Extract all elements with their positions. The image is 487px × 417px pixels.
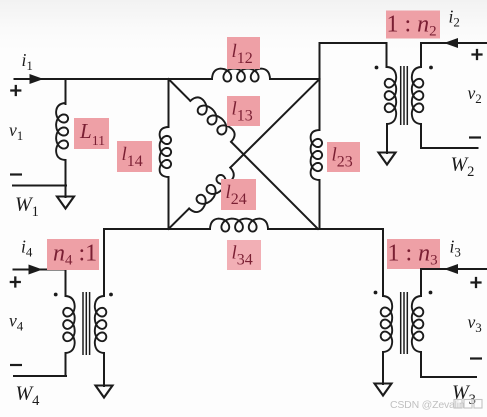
ground below U3 primary: [375, 384, 392, 396]
ground below U2 primary: [379, 153, 396, 165]
label L11: [74, 118, 109, 149]
svg-text:1 : n2: 1 : n2: [387, 12, 437, 40]
wire: diagonal from top-left corner (l13 branch start): [169, 79, 191, 101]
wire: U4 secondary top to square: [103, 229, 105, 296]
dot U2 secondary: [429, 66, 433, 70]
wire: square BR to transformer U3 primary: [382, 229, 384, 296]
wire: square right side bottom: [319, 180, 321, 229]
ground below L11: [57, 197, 74, 209]
transformer U2 secondary winding: [412, 67, 424, 124]
wire: port-1 bottom terminal line: [13, 185, 66, 187]
label l12: [227, 37, 260, 69]
ground below U4 secondary: [96, 386, 113, 398]
plus terminal port 2: [471, 49, 482, 60]
wire: U2 secondary bottom terminal: [421, 124, 478, 148]
inductor l24: [189, 168, 234, 212]
svg-text:n4 :1: n4 :1: [53, 240, 97, 268]
wire: U2 primary bottom to ground: [386, 124, 388, 153]
minus terminal port 3: [470, 357, 482, 359]
wire: square TR corner up: [319, 43, 321, 79]
dot U3 primary: [374, 291, 378, 295]
transformer U2 core: [400, 66, 402, 125]
label l34: [227, 240, 261, 270]
wire: port-1 input bus to square top-left: [15, 78, 169, 80]
minus terminal port 4: [10, 364, 22, 366]
dot U4 secondary: [109, 293, 113, 297]
inductor L11: [56, 103, 68, 160]
plus terminal port 4: [10, 276, 21, 287]
transformer U4 core: [82, 292, 84, 355]
wire: square bottom right segment: [268, 228, 383, 230]
wire: square top-left segment: [169, 78, 213, 80]
transformer U3 secondary winding: [412, 296, 424, 352]
wire: L11 branch top: [65, 79, 67, 104]
wire: square top-right segment: [270, 78, 320, 80]
wire: to transformer U2 primary: [320, 43, 387, 67]
dot U2 primary: [375, 66, 379, 70]
wire: port-4 bottom terminal line: [14, 375, 66, 377]
label 1:n3: [387, 239, 440, 269]
inductor l14: [160, 127, 172, 177]
label l24: [221, 179, 256, 210]
label 1:n2: [386, 11, 440, 39]
minus terminal port 1: [10, 173, 22, 175]
wire: square bottom left segment: [104, 228, 210, 230]
svg-text:1 : n3: 1 : n3: [388, 240, 438, 268]
inductor l23: [311, 130, 323, 180]
wire: U3 primary bottom to ground: [382, 352, 384, 384]
label n4:1: [47, 239, 99, 270]
dot U4 primary: [54, 293, 58, 297]
wire: U4 primary bottom: [65, 353, 67, 376]
wire: i4 input: [14, 270, 66, 297]
inductor l34: [210, 219, 268, 232]
plus terminal port 1: [10, 85, 21, 96]
current arrow i2: [444, 38, 458, 48]
wire: i3 input: [421, 269, 487, 296]
plus terminal port 3: [470, 277, 481, 288]
wire: square left side bottom: [168, 177, 170, 229]
wire: U4 secondary bottom to ground: [103, 353, 105, 386]
transformer U4 primary winding: [63, 296, 74, 353]
current arrow i4: [29, 265, 43, 275]
dot U3 secondary: [429, 291, 433, 295]
label l14: [117, 141, 152, 172]
current arrow i1: [30, 74, 44, 84]
label l13: [227, 96, 260, 126]
wire: i2 input: [421, 43, 487, 67]
transformer U2 primary winding: [385, 67, 397, 124]
label l23: [327, 142, 360, 172]
wire: L11 branch bottom: [65, 160, 67, 197]
transformer U4 secondary winding: [95, 296, 107, 353]
inductor l13: [190, 97, 234, 141]
wire: diagonal to bottom-right corner: [231, 142, 318, 229]
transformer U3 core: [400, 292, 402, 354]
wire: U3 secondary bottom terminal: [421, 352, 476, 377]
wire: square right side top: [319, 79, 321, 130]
current arrow i3: [444, 264, 458, 274]
transformer U3 primary winding: [381, 296, 393, 352]
minus terminal port 2: [469, 136, 481, 138]
wire: diagonal from bottom-left corner (l24 branch start): [169, 209, 190, 229]
wire: square left side top: [168, 79, 170, 127]
wire: diagonal to top-right corner: [230, 79, 319, 168]
inductor l12: [212, 69, 270, 82]
